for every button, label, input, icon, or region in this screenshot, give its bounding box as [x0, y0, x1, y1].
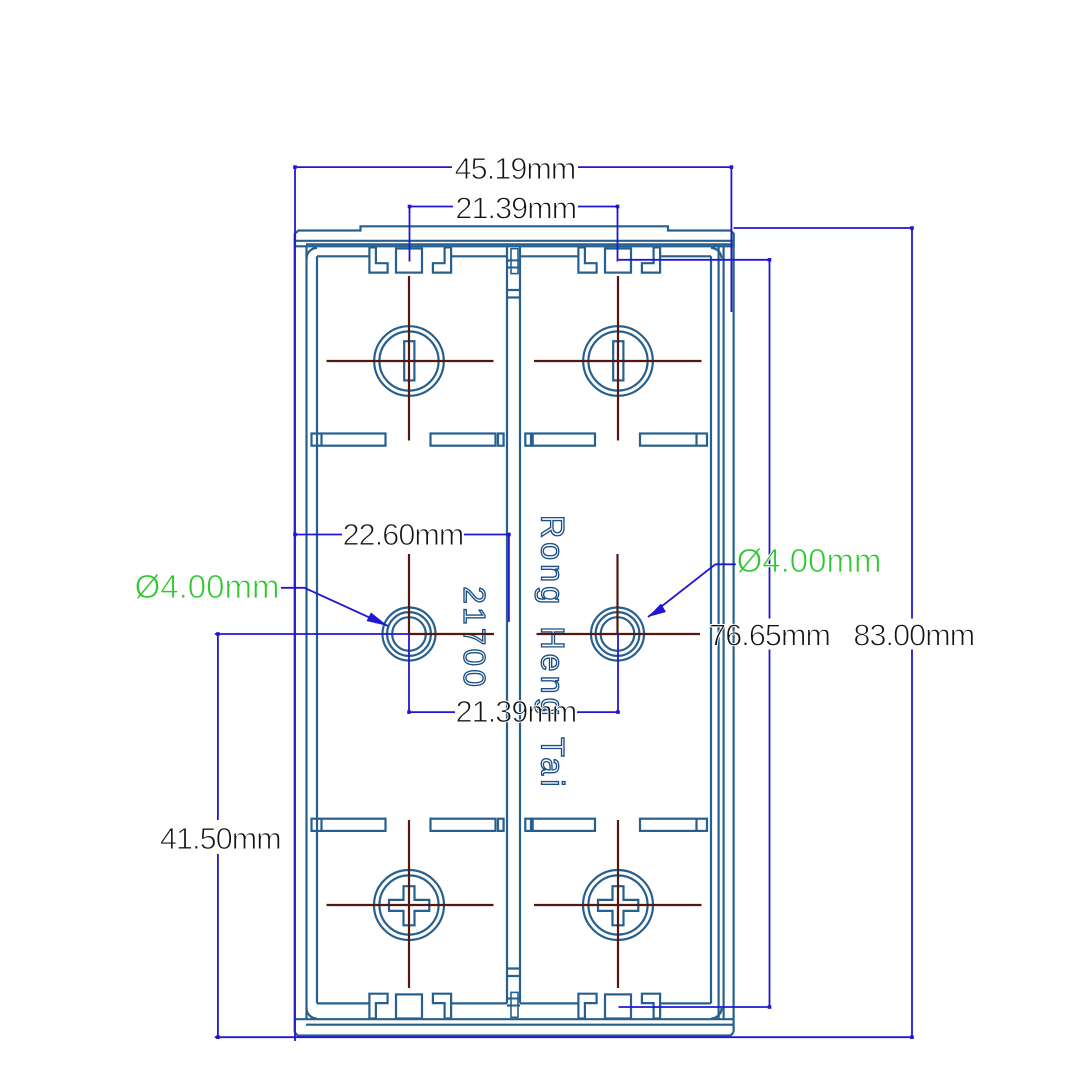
bottom cap outer outline: [295, 1032, 734, 1035]
dim 21.39mm top extensions: [410, 207, 618, 262]
top-right tab right bracket: [642, 247, 660, 272]
svg-text:41.50mm: 41.50mm: [160, 822, 281, 856]
dim 41.50mm top extension: [215, 633, 409, 635]
top cap bottom line: [295, 245, 734, 247]
svg-text:Rong Heng Tai: Rong Heng Tai: [535, 515, 571, 791]
svg-text:Ø4.00mm: Ø4.00mm: [135, 568, 280, 605]
svg-text:21.39mm: 21.39mm: [456, 695, 577, 729]
bottom cap line 1: [295, 1018, 734, 1020]
dim 41.50mm vertical line: [217, 634, 219, 1037]
lower rib ticks: [322, 819, 697, 831]
crosshair bottom-right terminal: [534, 820, 702, 988]
divider clip rungs bottom: [507, 969, 520, 1006]
top-right terminal slot: [613, 341, 623, 380]
left wall inner: [316, 256, 318, 1003]
bottom-left terminal circles: [374, 870, 444, 940]
right mounting hole circles: [591, 608, 644, 661]
crosshair top-right terminal: [534, 276, 702, 441]
dim 21.39mm top line: [410, 206, 618, 208]
leader left hole: [281, 588, 388, 626]
svg-text:83.00mm: 83.00mm: [853, 619, 974, 653]
divider clip rungs top: [507, 261, 520, 298]
bottom extension line: [215, 1036, 912, 1038]
top cap inner line 2: [306, 243, 734, 245]
upper rib ticks: [322, 434, 697, 446]
bottom-left terminal cross: [389, 886, 429, 925]
bottom-right terminal circles: [583, 870, 653, 940]
divider clip inner rect bottom: [511, 992, 518, 1017]
inner corner fillet bottom-right: [711, 1008, 722, 1019]
inner floor line segments: [317, 1002, 711, 1004]
top-right terminal circles: [583, 326, 653, 396]
inner corner fillet top-left: [307, 248, 318, 259]
left cap edge: [294, 234, 296, 1033]
dim 45.19mm line: [295, 166, 731, 168]
top cap inner line 1: [295, 240, 734, 242]
svg-text:Ø4.00mm: Ø4.00mm: [737, 542, 882, 579]
bottom-left tab left bracket: [369, 994, 387, 1019]
bottom cap line 2: [306, 1024, 734, 1026]
svg-text:22.60mm: 22.60mm: [343, 518, 464, 552]
svg-text:45.19mm: 45.19mm: [455, 152, 576, 186]
right wall inner: [710, 256, 712, 1003]
dim 22.60mm line: [295, 535, 509, 622]
dim 83.00mm vertical line: [911, 228, 913, 1037]
bottom-right tab square: [605, 994, 631, 1018]
top-left tab square: [396, 249, 422, 273]
crosshair right hole: [537, 554, 701, 634]
leader right hole: [648, 564, 736, 617]
dim 21.39mm bottom line: [409, 711, 618, 713]
center divider left line: [506, 246, 508, 1003]
bottom-left tab right bracket: [433, 994, 451, 1019]
dim 76.65mm bottom extension: [619, 1006, 770, 1008]
svg-text:21700: 21700: [457, 587, 492, 691]
dim 45.19mm left extension: [294, 167, 296, 1041]
bottom-right terminal cross: [598, 886, 638, 925]
dim 76.65mm vertical line: [769, 260, 771, 1007]
top-right tab square: [605, 249, 631, 273]
bottom-left tab square: [396, 994, 422, 1018]
lower rib row rects: [312, 819, 386, 831]
bottom-right tab left bracket: [578, 994, 596, 1019]
svg-text:76.65mm: 76.65mm: [709, 619, 830, 653]
leader arrowhead left: [367, 613, 389, 627]
dim 21.39mm bottom extensions: [409, 634, 618, 712]
crosshair top-left terminal: [327, 276, 494, 441]
center divider right line: [519, 246, 521, 1003]
top-left terminal slot: [404, 341, 414, 380]
dim 45.19mm right extension: [730, 167, 732, 312]
top-right tab left bracket: [578, 247, 596, 272]
right wall outer B: [722, 246, 724, 1019]
dimension end dots: [293, 165, 297, 169]
inner corner fillet top-right: [711, 248, 722, 259]
inner corner fillet bottom-left: [307, 1008, 318, 1019]
leader arrowhead right: [648, 604, 666, 618]
dim 76.65mm top extension: [619, 259, 770, 261]
crosshair bottom-left terminal: [327, 820, 494, 988]
right cap edge: [732, 234, 734, 1033]
top-left tab right bracket: [433, 247, 451, 272]
divider clip crossbars: [507, 260, 520, 1005]
bottom-right tab right bracket: [642, 994, 660, 1019]
left mounting hole circles: [383, 608, 436, 661]
right wall outer A: [717, 246, 719, 1019]
crosshair left hole: [409, 554, 494, 634]
top-left terminal circles: [374, 326, 444, 396]
svg-text:21.39mm: 21.39mm: [455, 191, 576, 225]
divider clip inner rect top: [511, 249, 518, 274]
top cap outer outline: [295, 226, 734, 246]
inner top wall line segments: [317, 255, 711, 257]
top-left tab left bracket: [369, 247, 387, 272]
upper rib row rects: [312, 434, 386, 446]
dim 83.00mm top extension: [734, 227, 912, 229]
left wall outer: [305, 246, 307, 1019]
